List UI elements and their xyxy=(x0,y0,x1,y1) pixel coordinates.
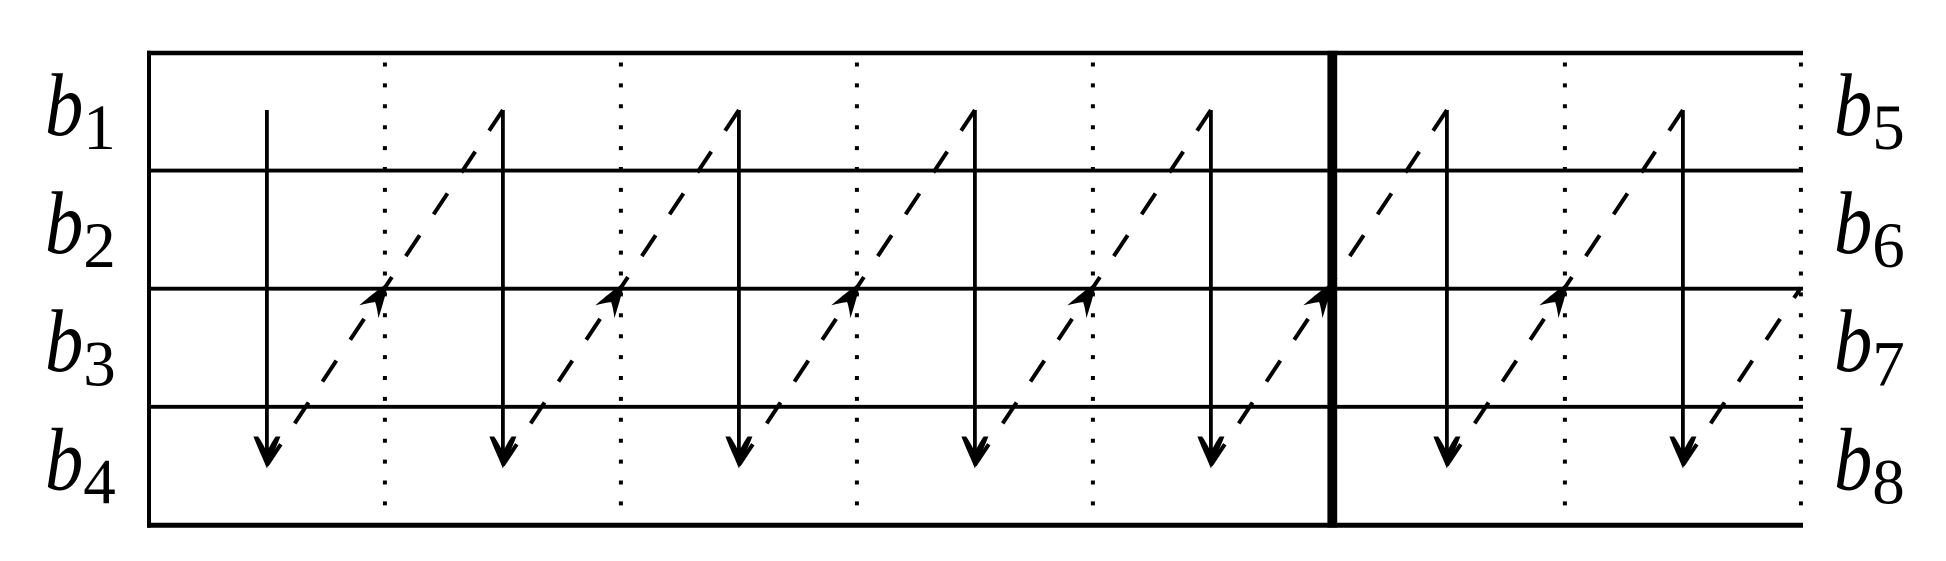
dotted gridline 6 xyxy=(1563,63,1567,507)
down arrow A5 xyxy=(1197,110,1224,469)
dotted gridline 3 xyxy=(855,63,859,507)
dotted gridline 1 xyxy=(383,63,387,507)
down arrow A4 xyxy=(961,110,988,469)
down arrow A7 xyxy=(1669,110,1696,469)
staff line b3/b4 xyxy=(149,405,1803,409)
frame top border xyxy=(147,51,1803,55)
frame left border xyxy=(147,51,151,528)
dashed shift arrow D3 xyxy=(739,110,975,465)
dashed shift arrow D1 xyxy=(267,110,503,465)
down arrow A6 xyxy=(1433,110,1460,469)
frame bottom border xyxy=(147,523,1803,528)
dashed shift arrow D6 xyxy=(1447,110,1683,465)
staff line b2/b3 (middle) xyxy=(149,287,1803,291)
staff line b1/b2 xyxy=(149,169,1803,173)
thick barline xyxy=(1327,51,1337,528)
dashed shift arrow D2 xyxy=(503,110,739,465)
dotted gridline 2 xyxy=(619,63,623,507)
dashed shift arrow D4 xyxy=(975,110,1211,465)
down arrow A2 xyxy=(489,110,516,469)
down arrow A1 xyxy=(253,110,280,469)
down arrow A3 xyxy=(725,110,752,469)
dotted gridline 4 xyxy=(1091,63,1095,507)
dotted gridline 7 xyxy=(1799,63,1803,507)
dashed shift arrow D5 xyxy=(1211,110,1447,465)
dashed shift arrow D7 (clipped at right edge) xyxy=(1683,288,1801,466)
